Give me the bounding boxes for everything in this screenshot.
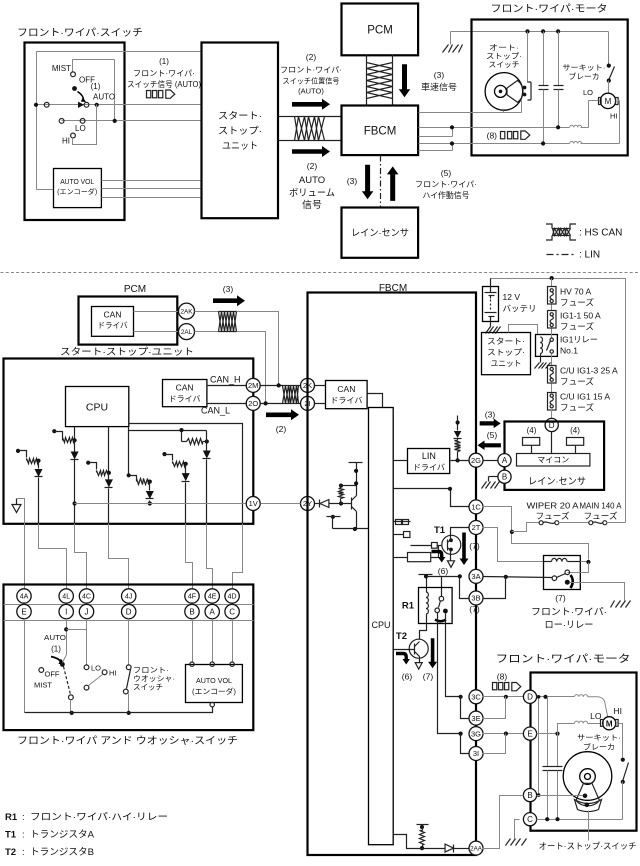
svg-text:HI: HI (614, 706, 623, 716)
1V collector wire (75, 503, 254, 505)
wires FBCM pair 2 (top) (419, 141, 455, 150)
contact HI bottom (102, 669, 116, 678)
pin J (79, 604, 93, 618)
label (8) mini arrow (top) (487, 131, 530, 141)
contact LO lower (84, 675, 102, 690)
rain sensor box (top) (342, 208, 419, 258)
svg-text:J: J (85, 607, 89, 616)
Q1 emitter to CPU (353, 512, 369, 532)
capacitor C-b (top) (554, 32, 564, 128)
gap wire to 4J (109, 524, 129, 589)
T1 collector to 2T (451, 528, 469, 541)
svg-text:PCM: PCM (124, 284, 146, 295)
svg-text:HI: HI (62, 137, 70, 146)
resistor near 2AA (417, 825, 429, 851)
PCM box (bottom) (79, 297, 178, 345)
IG1 relay coil ground (535, 354, 551, 369)
pin 4L (59, 589, 73, 603)
label CAN_L (201, 406, 230, 416)
pin B rain (498, 470, 511, 483)
svg-text:フロント·ワイパ·モータ: フロント·ワイパ·モータ (491, 3, 608, 15)
svg-text:(2): (2) (276, 424, 287, 434)
front wiper low relay box (544, 556, 581, 590)
gap wire to 4F (186, 524, 193, 589)
contact HI + link (62, 105, 97, 146)
wire - LO row (59, 119, 201, 134)
svg-text:3B: 3B (471, 594, 480, 603)
svg-text:T2: T2 (396, 631, 407, 642)
wire 1V-2Y (261, 503, 301, 505)
R1 wire to 3G (438, 613, 463, 736)
FBCM label (bottom) (379, 283, 407, 294)
svg-text:LO: LO (91, 664, 101, 673)
C row wire (537, 817, 623, 821)
wire 3C to D (483, 695, 524, 699)
arrow (7) T2 (428, 638, 437, 668)
CPU aux symbol pair (394, 520, 411, 525)
legend HS CAN (546, 224, 622, 240)
pin 3A (469, 569, 483, 583)
fuse HV 70A (548, 279, 557, 305)
wire 2T to relay coil (483, 528, 544, 562)
selector arrow (78, 92, 87, 103)
wire 1C to fuses and relay (483, 507, 589, 560)
2G pull-up resistor (455, 439, 461, 461)
Q1 collector supply tick (349, 463, 363, 496)
svg-text:スタート·ストップ·ユニット: スタート·ストップ·ユニット (60, 347, 194, 358)
front wiper switch box (25, 43, 125, 221)
wiper washer switch box (4, 585, 254, 731)
label 12V battery (503, 292, 537, 314)
svg-text:HI: HI (109, 669, 117, 678)
svg-text:ブレーカ: ブレーカ (583, 742, 615, 752)
label AUTO (1) bottom switch (44, 633, 66, 654)
pin 2G (469, 453, 483, 467)
label (8) bottom (493, 672, 521, 691)
relay R1 box (402, 588, 452, 624)
svg-text:FBCM: FBCM (364, 126, 397, 138)
pin 2T (469, 521, 483, 535)
motor E row inductor to LO (537, 721, 601, 736)
svg-text:スイッチ位置信号: スイッチ位置信号 (283, 76, 340, 86)
section divider (1, 272, 640, 274)
wire 3G to E (483, 732, 524, 736)
wire ground rail into motor box (451, 29, 609, 33)
arrow (3) CAN bottom (213, 295, 245, 306)
svg-text:スイッチ: スイッチ (489, 60, 520, 69)
svg-text:B: B (189, 607, 194, 616)
contact OFF bottom (39, 668, 60, 679)
svg-text:C/U IG1-3 25 A: C/U IG1-3 25 A (560, 366, 618, 376)
svg-text:AUTO: AUTO (93, 93, 115, 102)
svg-text:M: M (605, 97, 612, 106)
low relay to ground (570, 583, 631, 608)
T1 emitter ground (448, 550, 455, 568)
svg-text:(3): (3) (223, 284, 234, 294)
start stop unit box (top) (202, 43, 279, 219)
svg-text:12 V: 12 V (503, 292, 521, 302)
pin 2Y (301, 497, 315, 511)
pin 4J (122, 589, 136, 603)
svg-text:フロント·ワイパ·: フロント·ワイパ· (280, 66, 342, 75)
rain sensor box (bottom) (505, 422, 605, 490)
pin 1V (246, 497, 260, 511)
svg-text:(6): (6) (438, 566, 449, 576)
pin 3E (469, 711, 483, 725)
gap wire to 4C (75, 524, 87, 589)
svg-text:4E: 4E (208, 594, 217, 601)
arrow (2) bottom (266, 409, 299, 420)
label (7) low relay (555, 593, 566, 603)
battery ground (486, 317, 501, 334)
motif M5 resistor (182, 431, 209, 445)
svg-text:D: D (126, 607, 132, 616)
svg-text:CAN_L: CAN_L (201, 406, 230, 416)
3I inner tie (461, 734, 469, 754)
svg-text:スイッチ: スイッチ (133, 683, 163, 692)
svg-text:(7): (7) (469, 604, 480, 614)
svg-text:4D: 4D (228, 594, 237, 601)
label CAN_H (210, 375, 241, 385)
svg-text:3A: 3A (471, 572, 480, 581)
3E inner tie (461, 697, 469, 719)
svg-text:サーキット·: サーキット· (563, 63, 606, 72)
svg-text:フューズ: フューズ (560, 298, 595, 308)
LO feed wire (top) (453, 101, 599, 130)
svg-text:(3): (3) (485, 410, 496, 420)
wires FBCM pair 1 (top) (419, 125, 455, 136)
svg-text:サーキット·: サーキット· (577, 733, 621, 742)
3E outer tie (483, 697, 506, 719)
svg-text:LO: LO (583, 88, 593, 97)
pin 2AA (469, 841, 483, 855)
T1 base chain (411, 543, 442, 549)
svg-text:(8): (8) (487, 131, 498, 141)
wire - switch internal top feed (37, 52, 202, 190)
switch wire I down (64, 619, 86, 655)
motif M6 diode (182, 464, 190, 524)
svg-text:(1): (1) (51, 645, 61, 654)
low relay contact (552, 570, 573, 588)
pin 2I (301, 396, 315, 410)
svg-text:: LIN: : LIN (579, 250, 600, 261)
PCM label (bottom) (124, 284, 146, 295)
svg-text:AUTO VOL: AUTO VOL (60, 179, 94, 186)
auto stop contact bracket (top) (522, 32, 532, 113)
svg-text:フューズ: フューズ (584, 511, 619, 521)
label MIST bottom (34, 681, 52, 690)
wire 3A to relay (483, 575, 553, 579)
svg-text:ユニット: ユニット (491, 359, 522, 368)
svg-text:PCM: PCM (367, 25, 393, 37)
svg-text:CAN: CAN (104, 310, 122, 320)
ground near C (506, 820, 527, 846)
svg-text:ストップ·: ストップ· (218, 126, 262, 137)
svg-text:(2): (2) (306, 52, 317, 62)
svg-text:AUTO: AUTO (299, 175, 325, 186)
T2 bent arrow (396, 654, 410, 665)
motif M2 resistor (52, 427, 76, 443)
svg-text:I: I (65, 607, 67, 616)
svg-text:E: E (527, 729, 532, 738)
front wiper motor label (bottom) (496, 653, 631, 665)
pin E motor (523, 727, 536, 740)
battery 12V (483, 279, 499, 322)
2Y input diode (315, 500, 344, 508)
pin 4F (185, 589, 199, 603)
svg-text:2T: 2T (472, 523, 481, 532)
svg-text:4C: 4C (82, 594, 91, 601)
circuit breaker (top) (607, 32, 615, 94)
wire - MIST to LO-row vertical (73, 60, 115, 121)
LIN dash-dot link (380, 156, 382, 208)
motif M1 resistor (16, 449, 41, 464)
wire LIN driver to 2G (451, 458, 469, 462)
HS CAN pair PCM-FBCM vertical (367, 55, 393, 106)
svg-text:B: B (502, 473, 507, 482)
legend T2 (5, 847, 94, 858)
wire CPU to 1C (394, 487, 469, 507)
svg-text:(AUTO): (AUTO) (298, 87, 324, 96)
svg-text:フロント·ワイパ アンド ウオッシャ·スイッチ: フロント·ワイパ アンド ウオッシャ·スイッチ (17, 735, 238, 747)
svg-text:バッテリ: バッテリ (503, 304, 537, 314)
R1 coil to T2 (420, 615, 427, 640)
svg-text:フロント·ワイパ·スイッチ: フロント·ワイパ·スイッチ (17, 27, 143, 39)
svg-text:C: C (229, 607, 235, 616)
gap wire to 4L (39, 524, 67, 589)
contact LO bottom (84, 664, 101, 673)
svg-text:IG1-1 50 A: IG1-1 50 A (560, 311, 601, 321)
3B outer tie (483, 577, 506, 599)
wire CAN driver to CPU (368, 394, 383, 408)
motif M6 resistor (162, 452, 187, 467)
label (1) switch (91, 82, 101, 91)
svg-text:ドライバ: ドライバ (98, 321, 128, 330)
svg-text:(7): (7) (555, 593, 566, 603)
pin 2O (207, 396, 261, 410)
switch pin rails (4, 605, 254, 621)
svg-text:A: A (502, 456, 508, 465)
transistor T2 (394, 631, 429, 658)
unit CAN driver box (163, 380, 207, 407)
svg-text::: : (22, 847, 25, 858)
svg-text:(6): (6) (402, 672, 413, 682)
svg-text:(3): (3) (347, 176, 358, 186)
svg-text:ロー·リレー: ロー·リレー (545, 620, 594, 631)
circuit breaker label (top) (563, 63, 606, 81)
pin 2AL (134, 324, 195, 340)
svg-text:(8): (8) (497, 672, 508, 682)
svg-text:4A: 4A (20, 594, 29, 601)
svg-text:レイン·センサ: レイン·センサ (351, 228, 409, 239)
svg-text:(2): (2) (307, 161, 318, 171)
svg-text:2O: 2O (248, 399, 258, 408)
svg-text:フューズ: フューズ (536, 511, 571, 521)
wire CPU to 4D (129, 424, 243, 524)
2G pull-up diode (454, 416, 462, 439)
legend LIN (547, 250, 601, 261)
gap wire to 4E (207, 524, 213, 589)
svg-text:ブレーカ: ブレーカ (569, 71, 600, 81)
HS CAN braid unit-FBCM (bottom) (261, 383, 301, 405)
svg-text:HV 70 A: HV 70 A (560, 287, 592, 297)
svg-text:フューズ: フューズ (560, 322, 595, 332)
wires AUTO VOL to unit (102, 181, 202, 198)
circuit breaker label (bottom) (577, 733, 621, 752)
pin 3G (469, 727, 483, 741)
washer switch contact (123, 665, 131, 715)
motor D row inductor to HI (537, 695, 608, 718)
R1 wire to 3C (446, 614, 463, 699)
svg-text:車速信号: 車速信号 (421, 82, 457, 92)
low relay caption (531, 607, 607, 631)
unit CPU box (66, 387, 129, 427)
FBCM CAN driver box (326, 381, 368, 409)
svg-text:CAN: CAN (176, 383, 194, 393)
motif M2 diode (71, 441, 79, 524)
svg-text:ドライバ: ドライバ (413, 463, 445, 472)
pin D motor (523, 690, 536, 703)
svg-text:LO: LO (590, 711, 602, 721)
pin 2K (301, 378, 315, 392)
microcomputer box (517, 454, 590, 467)
label (7) T2 (423, 672, 434, 682)
2Y bias resistor (339, 484, 357, 504)
auto stop switch rotor (top) (485, 73, 523, 111)
svg-text:1C: 1C (471, 503, 481, 512)
pin 4D (225, 589, 239, 603)
label (2) switch position signal (280, 52, 342, 96)
svg-text:4J: 4J (125, 594, 132, 601)
pin 3C (469, 690, 483, 704)
svg-text:R1: R1 (402, 601, 415, 612)
rain sensor elements (523, 426, 584, 454)
arrow (3) to rain sensor (362, 165, 374, 200)
svg-text:B: B (527, 791, 532, 800)
fuse C/U IG1 15A (548, 384, 557, 411)
pin C (225, 604, 239, 618)
capacitor C-a (top) (539, 32, 549, 144)
svg-text:3E: 3E (471, 714, 480, 723)
capacitor pair (bottom) (543, 697, 563, 820)
svg-text:信号: 信号 (302, 199, 322, 211)
arrow (5) wiper hi (387, 166, 399, 201)
motif M5 feed (129, 428, 207, 442)
low relay coil (544, 558, 581, 561)
svg-text:3C: 3C (471, 693, 481, 702)
T1 bent arrow (432, 552, 446, 563)
svg-text:C: C (527, 815, 533, 824)
AUTO VOL box bottom (186, 665, 243, 703)
pin I (59, 604, 73, 618)
R1 supply tick (419, 574, 433, 592)
svg-text:(1): (1) (159, 57, 169, 66)
svg-text:WIPER 20 A: WIPER 20 A (527, 501, 579, 511)
CPU aux connector (394, 532, 410, 538)
label (3) vehicle speed signal (421, 70, 457, 92)
arrow (5) rain bottom (478, 430, 501, 450)
svg-text:(7): (7) (469, 541, 480, 551)
pin B (185, 604, 199, 618)
transistor T1 (434, 525, 461, 554)
pin 2M (207, 378, 261, 392)
label (5) front wiper hi signal (415, 168, 477, 200)
pin 4A (17, 589, 31, 603)
HS CAN braid PCM pair (bottom) (195, 312, 279, 404)
T1 series resistor box (394, 546, 439, 562)
pin D rain sensor (545, 410, 558, 432)
arrow (7) T1 (460, 533, 469, 566)
svg-text:スタート·: スタート· (487, 337, 525, 346)
svg-text:3G: 3G (471, 729, 481, 738)
ground (top) (443, 32, 463, 53)
pin A (205, 604, 219, 618)
label (3) CAN bottom (223, 284, 234, 294)
signal mini arrow (1) (147, 90, 175, 98)
front wiper switch label (17, 27, 143, 39)
3A row wire (427, 574, 462, 596)
svg-text:LO: LO (75, 124, 86, 133)
svg-text::: : (22, 830, 25, 841)
svg-text:4L: 4L (62, 594, 70, 601)
svg-text:ハイ作動信号: ハイ作動信号 (423, 190, 470, 200)
svg-text:2AA: 2AA (470, 845, 483, 852)
switch blade dashed bottom (64, 667, 74, 716)
svg-text:(4): (4) (570, 426, 580, 435)
switch wire D down (128, 619, 130, 665)
switch common contact bottom (60, 655, 67, 667)
auto stop switch label (top) (486, 43, 522, 69)
svg-text:フューズ: フューズ (560, 403, 595, 413)
svg-text:ユニット: ユニット (222, 141, 258, 152)
pin 1C (469, 500, 483, 514)
motif M4 diode (146, 482, 154, 506)
AUTO VOL encoder box (54, 169, 102, 208)
svg-text:AUTO: AUTO (44, 633, 66, 642)
svg-text:1V: 1V (249, 499, 258, 508)
start stop unit box (right) (482, 333, 531, 375)
FBCM box (top) (342, 106, 419, 156)
HI feed wire (top) (453, 101, 620, 146)
label WIPER 20A fuse (527, 501, 579, 522)
svg-text:C/U IG1 15 A: C/U IG1 15 A (560, 392, 610, 402)
gap wire to 4A (24, 524, 26, 589)
svg-text:2M: 2M (248, 381, 258, 390)
signal ground triangle (unit) (12, 499, 25, 524)
washer switch label (133, 666, 175, 692)
R1 contact (435, 596, 448, 621)
svg-text:T2: T2 (5, 847, 16, 858)
diode to 2AA (445, 844, 468, 852)
label (1) wiper switch signal (127, 57, 201, 89)
pin D (122, 604, 136, 618)
AUTO VOL contacts bottom (190, 619, 235, 707)
label (2) bottom (276, 424, 287, 434)
svg-text:(7): (7) (423, 672, 434, 682)
PCM box (top) (342, 4, 419, 56)
wire CPU to 2AA (394, 835, 445, 849)
svg-text:3I: 3I (473, 749, 479, 758)
wire 2AA to B (483, 796, 524, 849)
svg-text:HI: HI (610, 112, 618, 121)
svg-text:(1): (1) (91, 82, 101, 91)
svg-text:CAN_H: CAN_H (210, 375, 241, 385)
rain B ground (482, 477, 500, 489)
svg-text:CPU: CPU (371, 620, 390, 630)
svg-text:フロント·ワイパ·: フロント·ワイパ· (415, 180, 477, 189)
motif M4 resistor (127, 427, 152, 485)
svg-text:ボリューム: ボリューム (289, 188, 335, 199)
